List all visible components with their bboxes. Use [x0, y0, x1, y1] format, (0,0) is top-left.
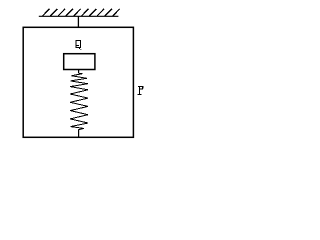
outer box P: [23, 27, 133, 137]
support rod from ceiling to box: [77, 16, 79, 27]
ceiling line: [39, 15, 119, 17]
label P: [138, 86, 144, 95]
label Q: [76, 40, 82, 50]
spring: [70, 70, 88, 138]
block Q: [64, 54, 95, 70]
ceiling hatch marks: [43, 9, 120, 16]
